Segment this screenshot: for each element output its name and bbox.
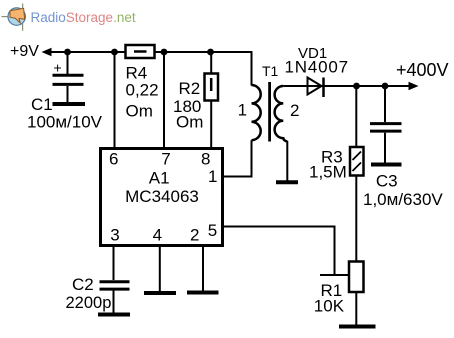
svg-text:RadioStorage.net: RadioStorage.net (31, 10, 136, 25)
svg-text:7: 7 (161, 150, 170, 169)
wire pin6 drop (114, 52, 116, 149)
wire pin8 to R2 (210, 52, 212, 74)
T1 core (268, 82, 271, 142)
wire pin2 drop (202, 246, 204, 291)
svg-text:100м/10V: 100м/10V (27, 113, 103, 132)
node pin8 junction (207, 49, 214, 56)
svg-text:1: 1 (208, 167, 217, 186)
svg-text:1: 1 (238, 101, 247, 120)
capacitor C1 (53, 75, 84, 84)
svg-text:Om: Om (126, 102, 153, 121)
resistor R3 (350, 147, 364, 176)
wire primary bottom lead to pin1 (224, 140, 252, 176)
wire primary top lead (251, 51, 253, 86)
wire pin5 run (224, 227, 335, 275)
ground pin4 (144, 291, 176, 295)
svg-text:1,0м/630V: 1,0м/630V (363, 190, 443, 209)
+400V arrow (409, 82, 419, 90)
wire R1 bottom (355, 292, 357, 325)
svg-text:2200p: 2200p (66, 294, 112, 312)
svg-text:+: + (54, 60, 62, 76)
capacitor C2 (100, 282, 130, 289)
ground C2 (98, 313, 130, 317)
svg-text:C3: C3 (376, 171, 398, 190)
ground C3 (371, 163, 402, 167)
wire R3 bottom to R1 (355, 176, 357, 262)
wire C3 top (384, 86, 386, 122)
transformer T1 primary winding 1 (252, 85, 261, 140)
svg-text:T1: T1 (262, 63, 279, 79)
svg-text:A1: A1 (149, 169, 170, 188)
ground secondary (276, 180, 298, 184)
logo icon horn (10, 8, 25, 23)
svg-text:10K: 10K (314, 296, 345, 315)
svg-text:6: 6 (109, 150, 118, 169)
node R3 junction (353, 83, 360, 90)
resistor R4 (126, 45, 155, 58)
wire C1 drop (67, 52, 69, 74)
svg-text:8: 8 (201, 150, 210, 169)
wire pin4 drop (159, 246, 161, 292)
wire pin7 drop (163, 52, 165, 149)
wire pin3 drop (113, 246, 115, 281)
svg-text:1N4007: 1N4007 (285, 57, 349, 76)
svg-text:0,22: 0,22 (126, 81, 159, 100)
svg-text:3: 3 (110, 226, 119, 245)
svg-text:2: 2 (290, 101, 299, 120)
wire secondary bottom lead (286, 141, 288, 181)
wire R2 to pin8 (210, 101, 212, 149)
svg-text:C1: C1 (31, 95, 53, 114)
node pin7 junction (161, 49, 168, 56)
node C3 junction (382, 83, 389, 90)
wire R3 top (355, 86, 357, 147)
logo icon crosshair (2, 4, 23, 31)
svg-text:1,5M: 1,5M (309, 163, 347, 182)
wire pin5 to R1 (320, 274, 349, 276)
wire top rail (50, 51, 252, 53)
capacitor C3 (370, 124, 402, 132)
svg-text:+9V: +9V (10, 43, 39, 60)
svg-text:R2: R2 (179, 79, 201, 98)
ground R1 (339, 325, 376, 329)
ground pin2 (187, 291, 219, 295)
transformer T1 secondary winding 2 (275, 86, 288, 142)
resistor R1 (349, 262, 364, 293)
node C1 junction (64, 49, 71, 56)
ground C1 (53, 102, 86, 106)
node pin6 junction (111, 49, 118, 56)
diode VD1 (283, 78, 410, 98)
+9V arrow (42, 48, 52, 56)
svg-text:4: 4 (153, 226, 162, 245)
op-amp U1 : IC A1 MC34063 box (101, 149, 223, 246)
logo icon globe (8, 8, 25, 25)
svg-text:Om: Om (176, 113, 203, 132)
svg-text:2: 2 (190, 226, 199, 245)
svg-text:5: 5 (208, 221, 217, 240)
svg-text:MC34063: MC34063 (125, 187, 199, 206)
resistor R2 (205, 74, 219, 101)
svg-text:C2: C2 (72, 275, 94, 294)
svg-text:+400V: +400V (396, 60, 449, 80)
